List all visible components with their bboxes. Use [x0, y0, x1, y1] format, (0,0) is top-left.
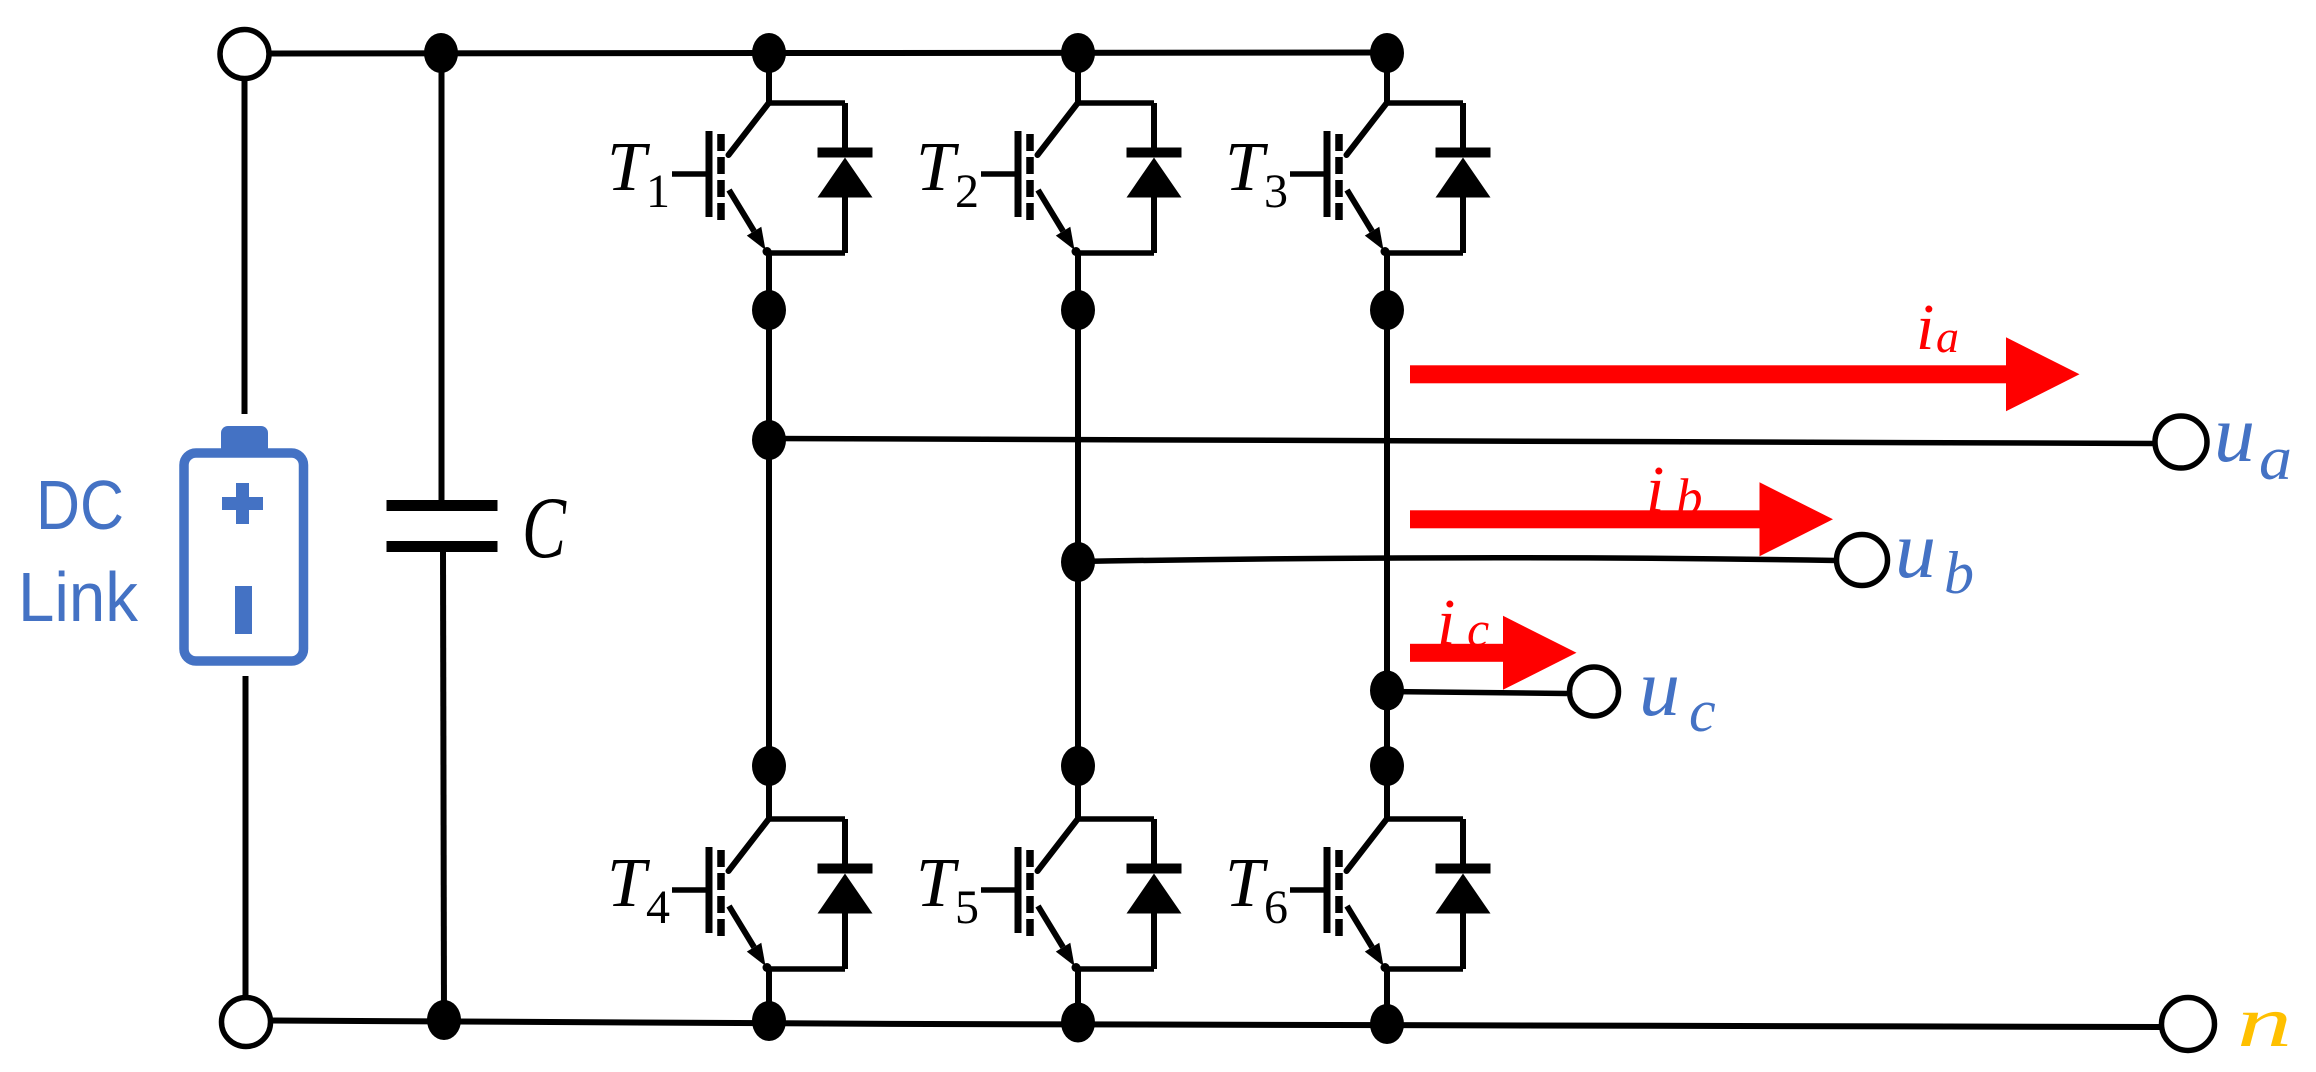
current arrow ia: [1410, 365, 2006, 383]
transistor T5 (IGBT): [1078, 816, 1154, 822]
wire capacitor top lead: [439, 53, 445, 500]
wire leg 3 top (rail to T3): [1384, 53, 1390, 103]
junction leg 1 bottom rail: [752, 1001, 786, 1041]
terminal DC+ (top-left): [220, 30, 269, 79]
antiparallel diode of T2: [1151, 103, 1157, 149]
wire leg 3 middle (T3 emitter to T6 collector): [1384, 253, 1390, 819]
svg-text:Link: Link: [18, 558, 139, 636]
wire leg 2 top (rail to T2): [1075, 53, 1081, 103]
svg-text:u: u: [1639, 642, 1680, 733]
transistor T2 (IGBT): [1078, 100, 1154, 106]
node phase a junction: [752, 420, 786, 460]
wire capacitor bottom lead: [443, 552, 444, 1021]
svg-text:b: b: [1944, 540, 1974, 606]
svg-text:a: a: [1936, 311, 1959, 362]
svg-text:b: b: [1676, 469, 1703, 527]
transistor T6 (IGBT): [1387, 816, 1463, 822]
terminal uc: [1570, 667, 1619, 716]
battery DC Link source: [221, 426, 268, 456]
transistor T3 (IGBT): [1387, 100, 1463, 106]
current arrow ic: [1410, 644, 1503, 662]
wire leg 1 top (rail to T1): [766, 53, 772, 103]
wire leg 1 bottom (T4 emitter to rail): [766, 969, 772, 1024]
junction leg 2 above T5: [1061, 746, 1095, 786]
antiparallel diode of T1: [842, 103, 848, 149]
junction leg 1 above T4: [752, 746, 786, 786]
svg-text:T: T: [916, 129, 960, 206]
junction leg 3 top rail: [1370, 33, 1404, 73]
svg-text:DC: DC: [36, 466, 124, 544]
wire bottom rail: [271, 1021, 2162, 1029]
wire phase b output: [1078, 558, 1837, 562]
junction capacitor bottom rail: [427, 1000, 461, 1040]
svg-text:6: 6: [1264, 881, 1288, 934]
junction leg 3 bottom rail: [1370, 1004, 1404, 1044]
junction leg 3 below T3: [1370, 290, 1404, 330]
svg-text:T: T: [607, 129, 651, 206]
junction capacitor top rail: [424, 33, 458, 73]
wire top rail: [269, 53, 1387, 54]
svg-text:i: i: [1646, 453, 1664, 526]
wire battery negative lead: [243, 676, 249, 999]
svg-text:5: 5: [955, 881, 979, 934]
svg-text:T: T: [916, 845, 960, 922]
svg-text:c: c: [1467, 601, 1489, 657]
svg-text:4: 4: [646, 881, 670, 934]
svg-text:2: 2: [955, 165, 979, 218]
wire phase a output: [769, 439, 2155, 444]
svg-text:c: c: [1689, 678, 1716, 744]
svg-text:C: C: [522, 480, 567, 577]
junction leg 3 above T6: [1370, 746, 1404, 786]
capacitor C: [387, 500, 498, 511]
wire phase c output: [1387, 692, 1567, 694]
svg-text:3: 3: [1264, 165, 1288, 218]
svg-text:i: i: [1916, 291, 1934, 364]
antiparallel diode of T5: [1151, 819, 1157, 865]
antiparallel diode of T3: [1460, 103, 1466, 149]
node phase b junction: [1061, 542, 1095, 582]
terminal ub: [1837, 535, 1888, 586]
junction leg 1 below T1: [752, 290, 786, 330]
junction leg 2 below T2: [1061, 290, 1095, 330]
terminal ua: [2155, 416, 2207, 468]
svg-text:u: u: [2214, 388, 2255, 479]
wire leg 3 bottom (T6 emitter to rail): [1384, 969, 1390, 1024]
transistor T1 (IGBT): [769, 100, 845, 106]
svg-text:u: u: [1895, 504, 1936, 595]
transistor T4 (IGBT): [769, 816, 845, 822]
wire leg 1 middle (T1 emitter to T4 collector): [766, 253, 772, 819]
node phase c junction: [1370, 671, 1404, 711]
terminal n: [2162, 998, 2215, 1051]
svg-text:T: T: [1225, 129, 1269, 206]
svg-text:n: n: [2237, 982, 2292, 1062]
junction leg 2 bottom rail: [1061, 1003, 1095, 1043]
svg-text:1: 1: [646, 165, 670, 218]
antiparallel diode of T4: [842, 819, 848, 865]
junction leg 1 top rail: [752, 33, 786, 73]
svg-text:i: i: [1437, 586, 1455, 659]
current arrow ib: [1410, 510, 1760, 528]
wire battery positive lead: [242, 78, 248, 414]
svg-text:a: a: [2259, 425, 2292, 493]
wire leg 2 middle (T2 emitter to T5 collector): [1075, 253, 1081, 819]
svg-text:T: T: [607, 845, 651, 922]
terminal DC- (bottom-left): [222, 998, 271, 1047]
antiparallel diode of T6: [1460, 819, 1466, 865]
wire leg 2 bottom (T5 emitter to rail): [1075, 969, 1081, 1024]
svg-text:T: T: [1225, 845, 1269, 922]
junction leg 2 top rail: [1061, 33, 1095, 73]
